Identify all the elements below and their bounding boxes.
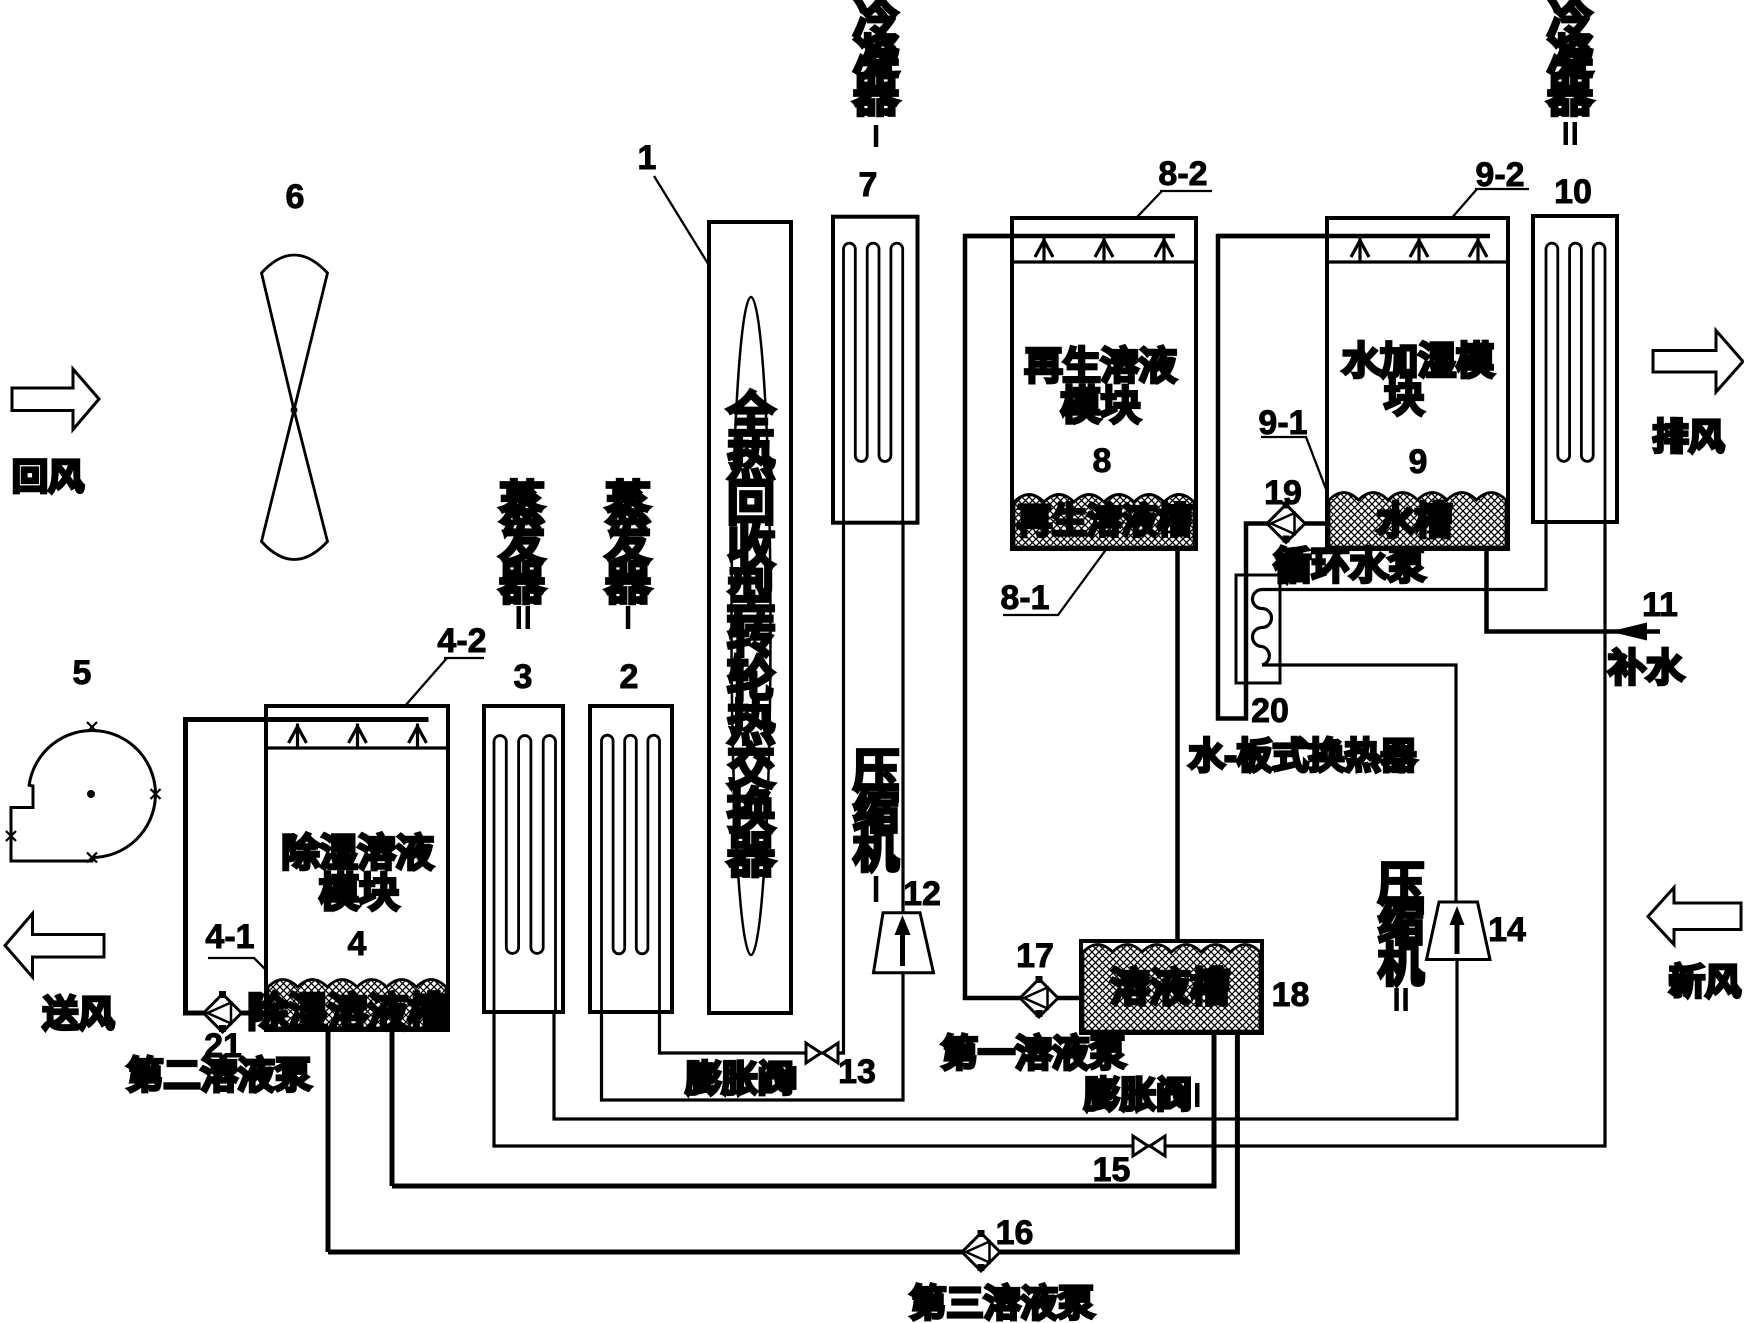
svg-text:16: 16 (996, 1214, 1034, 1252)
module 9 spray band line (1327, 260, 1508, 263)
heat exchanger 20 serpentine coil (1253, 590, 1272, 666)
water humidifier module 9 box (1327, 218, 1508, 549)
svg-text:9-1: 9-1 (1258, 404, 1307, 442)
svg-text:再生溶液: 再生溶液 (1024, 346, 1176, 388)
module 8 band arrows (1035, 238, 1173, 262)
svg-text:器: 器 (1547, 69, 1594, 121)
wire: dehumidifier module 4 spray loop riser (186, 720, 429, 1014)
solution tank 18 (1081, 941, 1262, 1033)
svg-text:20: 20 (1251, 692, 1289, 730)
module 9 water tank 9-1 hatched with wavy surface (1329, 493, 1506, 548)
wire: pump 19 outlet to water tank of module 9 (1305, 521, 1328, 526)
supply air arrow 送风 (5, 914, 104, 978)
wire: pump 21 outlet to module 4 tank (242, 1011, 268, 1016)
svg-text:10: 10 (1554, 173, 1592, 211)
module 9 band arrows (1351, 238, 1487, 262)
condenser I box 7 (833, 217, 918, 523)
svg-text:2: 2 (620, 658, 639, 696)
module 8 supply line across band (965, 234, 1175, 239)
compressor 12 arrow (900, 930, 905, 966)
arrowhead of makeup water line (1610, 623, 1647, 641)
rotary wheel ellipse (732, 297, 771, 955)
expansion valve 15 bowtie (1133, 1136, 1148, 1156)
pump 17 first solution pump (1020, 976, 1058, 1017)
leader for label 9-2 (1437, 189, 1529, 235)
total heat recovery rotary wheel heat exchanger 1 box (709, 222, 791, 1013)
evaporator I coil (602, 735, 660, 1010)
svg-text:送风: 送风 (42, 993, 114, 1034)
condenser I coil (844, 243, 903, 521)
wire: pump 17 to solution tank 18 (1058, 996, 1084, 1001)
svg-text:水-板式换热器: 水-板式换热器 (1189, 735, 1418, 776)
svg-text:块: 块 (1384, 376, 1424, 420)
svg-text:18: 18 (1272, 976, 1310, 1014)
svg-text:7: 7 (859, 166, 878, 204)
module 4 supply line across band (186, 717, 429, 722)
fan 6 bowtie impeller (262, 255, 328, 560)
wire: compressor 12 discharge to condenser 7 (901, 521, 904, 914)
return air arrow 回风 (12, 369, 99, 430)
svg-text:水槽: 水槽 (1376, 501, 1452, 543)
svg-text:除湿溶液: 除湿溶液 (281, 832, 433, 875)
svg-text:9: 9 (1409, 443, 1428, 481)
module 8 spray band line (1012, 260, 1196, 263)
svg-text:14: 14 (1488, 911, 1526, 949)
pump 21 second solution pump (204, 991, 242, 1032)
wire: module 4 tank left drain to bottom solution line (326, 1026, 331, 1252)
svg-text:除湿溶液槽: 除湿溶液槽 (248, 991, 448, 1035)
wire: circulating water loop pump 19 to module 9 sprayer (1218, 236, 1490, 719)
svg-text:补水: 补水 (1608, 648, 1685, 690)
rotary wheel vertical text 全热回收型转轮热交换器 (726, 389, 776, 883)
wire: plate heat exchanger 20 to condenser 10 (1262, 521, 1546, 590)
regeneration solution module 8 box (1012, 218, 1196, 549)
svg-text:12: 12 (903, 875, 941, 913)
svg-text:5: 5 (73, 654, 92, 692)
svg-text:第一溶液泵: 第一溶液泵 (941, 1033, 1126, 1074)
svg-text:19: 19 (1264, 474, 1302, 512)
svg-text:器: 器 (499, 557, 546, 609)
evaporator II coil (494, 736, 556, 1010)
svg-text:器: 器 (727, 830, 776, 883)
leader for label 4-1 (208, 958, 281, 985)
svg-text:机: 机 (853, 825, 899, 877)
svg-text:排风: 排风 (1652, 416, 1724, 457)
wire: solution line y1186 to tank 18 (392, 1030, 1214, 1186)
condenser II coil (1546, 243, 1605, 520)
wire: evaporator I suction line to compressor 12 (602, 968, 904, 1100)
svg-text:模块: 模块 (1061, 384, 1141, 428)
condenser II box 10 (1533, 216, 1617, 522)
svg-text:8-1: 8-1 (1000, 579, 1049, 617)
svg-text:9-2: 9-2 (1475, 156, 1524, 194)
dehumidifier solution module 4 box (266, 706, 448, 1030)
leader for label 8-1 (1003, 540, 1113, 615)
compressor 14 arrow (1455, 920, 1460, 954)
svg-text:4-2: 4-2 (437, 622, 486, 660)
leader for label 1 (654, 176, 731, 301)
wire: makeup water line 11 (1487, 546, 1661, 632)
wire: bottom solution line through pump 16 to tank 18 (328, 1030, 1237, 1252)
leader for label 4-2 (377, 658, 484, 738)
module 9 supply line across band (1218, 234, 1490, 239)
compressor 12 trapezoid (874, 913, 934, 973)
rotary wheel rotation marks (767, 462, 774, 478)
svg-text:溶液槽: 溶液槽 (1110, 966, 1230, 1010)
svg-text:15: 15 (1093, 1151, 1131, 1189)
module 4 band arrows (289, 724, 427, 748)
svg-text:3: 3 (514, 658, 533, 696)
leader for label 9-1 (1261, 437, 1329, 497)
wire: regeneration module 8 spray riser from pump 17 (965, 236, 1175, 998)
svg-text:4: 4 (348, 925, 367, 963)
evaporator II box 3 (484, 706, 563, 1012)
svg-text:循环水泵: 循环水泵 (1273, 546, 1425, 588)
svg-text:1: 1 (638, 139, 657, 177)
pump 16 third solution pump (962, 1230, 1000, 1271)
exhaust air arrow 排风 (1653, 331, 1743, 393)
tank 18 hatched fill with wavy surface (1083, 945, 1260, 1032)
pump 19 circulating water pump (1267, 502, 1305, 543)
module 4 spray band line (266, 746, 448, 749)
svg-text:8: 8 (1093, 442, 1112, 480)
svg-text:4-1: 4-1 (205, 918, 254, 956)
svg-text:回风: 回风 (12, 456, 84, 497)
svg-text:再生溶液槽: 再生溶液槽 (1017, 502, 1192, 541)
svg-text:器: 器 (853, 69, 900, 121)
svg-text:8-2: 8-2 (1158, 155, 1207, 193)
svg-text:膨胀阀: 膨胀阀 (685, 1058, 793, 1099)
svg-text:11: 11 (1642, 586, 1678, 624)
fresh air arrow 新风 (1648, 888, 1741, 945)
water plate heat exchanger 20 box (1236, 575, 1280, 683)
blower 5 scroll fan (11, 731, 155, 862)
svg-text:膨胀阀: 膨胀阀 (1084, 1074, 1192, 1115)
module 8 tank 8-1 hatched with wavy surface (1014, 495, 1194, 548)
svg-text:机: 机 (1378, 939, 1424, 991)
module 4 tank 4-1 hatched with wavy surface (268, 980, 446, 1029)
leader for label 8-2 (1119, 191, 1212, 236)
svg-text:新风: 新风 (1669, 961, 1741, 1002)
evaporator I box 2 (590, 706, 672, 1012)
wire: evaporator I to expansion valve 13 to condenser 7 (660, 521, 844, 1053)
wire: module 8 tank drain to solution tank 18 (1175, 550, 1180, 945)
svg-text:器: 器 (605, 557, 652, 609)
expansion valve 13 bowtie (806, 1043, 821, 1063)
compressor 14 trapezoid (1427, 902, 1491, 960)
wire: compressor 14 discharge to plate heat exchanger 20 (1262, 665, 1456, 904)
svg-text:17: 17 (1016, 937, 1054, 975)
svg-text:模块: 模块 (319, 871, 399, 915)
svg-text:13: 13 (838, 1053, 876, 1091)
svg-text:6: 6 (286, 178, 305, 216)
wire: evaporator II suction line to compressor 14 (554, 956, 1457, 1119)
wire: condenser 10 to expansion valve 15 to evaporator II (494, 521, 1605, 1146)
wire: module 4 tank right drain to solution line (390, 1026, 395, 1186)
svg-text:21: 21 (204, 1027, 242, 1065)
svg-text:第三溶液泵: 第三溶液泵 (910, 1283, 1095, 1323)
